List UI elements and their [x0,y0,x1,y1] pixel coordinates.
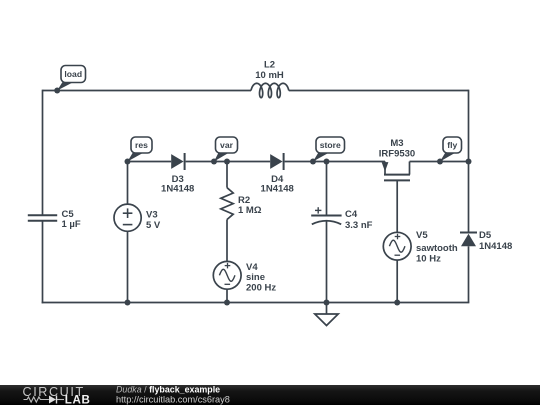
svg-text:10 Hz: 10 Hz [416,253,441,264]
wire V4 to bottom [226,289,228,302]
wire top-right run [289,90,469,92]
svg-text:LAB: LAB [65,393,91,405]
svg-text:1N4148: 1N4148 [161,183,194,194]
svg-text:load: load [64,69,82,79]
voltage source V5 sawtooth [383,232,411,260]
node fly junction [437,159,443,165]
svg-text:3.3 nF: 3.3 nF [345,220,373,231]
node load junction [54,88,60,94]
svg-text:sine: sine [246,272,265,283]
junction ground [324,300,330,306]
node store junction [310,159,316,165]
node label load [57,82,73,91]
wire right mid [468,162,470,233]
svg-text:10 mH: 10 mH [255,70,284,81]
wire C4 to bottom [326,222,328,303]
wire left lower [42,222,44,304]
svg-text:1N4148: 1N4148 [479,241,512,252]
svg-text:M3: M3 [390,138,403,149]
ground [315,303,338,326]
svg-text:Dudka / flyback_example: Dudka / flyback_example [116,385,220,395]
node label store [313,153,329,162]
capacitor C5 [28,214,57,216]
svg-text:D5: D5 [479,230,492,241]
capacitor C4 polarized [311,207,341,224]
svg-text:res: res [135,140,148,150]
junction V5 bottom [394,300,400,306]
circuitlab logo diode symbol [49,396,56,404]
wire M3 gate lead [396,180,398,232]
node label res [128,153,144,162]
junction V3 bottom [125,300,131,306]
diode D4 [270,154,282,169]
svg-text:http://circuitlab.com/cs6ray8: http://circuitlab.com/cs6ray8 [116,395,230,405]
svg-text:L2: L2 [264,59,275,70]
resistor R2 [221,188,233,220]
wire store node to C4 [326,162,328,216]
wire V5 to bottom [396,260,398,302]
svg-text:1N4148: 1N4148 [261,183,294,194]
svg-text:C4: C4 [345,209,358,220]
wire bottom run [42,302,470,304]
svg-text:5 V: 5 V [146,220,161,231]
circuitlab logo resistor symbol [24,397,49,402]
inductor L2 [251,83,289,97]
wire top-left run [43,90,252,92]
wire R2 to V4 [226,220,228,262]
wire res to D3 [128,161,172,163]
node label var [214,153,229,162]
wire V3 to bottom [127,231,129,302]
wire left side [42,90,44,215]
voltage source V4 sine [213,261,241,289]
junction right corner [466,159,472,165]
node label fly [440,153,456,162]
wire right upper [468,90,470,162]
diode D5 [460,232,477,234]
junction V4 bottom [224,300,230,306]
svg-text:200 Hz: 200 Hz [246,283,276,294]
wire res node to V3 [127,162,129,205]
svg-text:1 µF: 1 µF [62,219,81,230]
svg-text:fly: fly [447,140,457,150]
node res junction [125,159,131,165]
wire D4 to M3 [285,161,385,163]
voltage source V3 [114,204,141,231]
svg-text:C5: C5 [62,209,75,220]
svg-text:sawtooth: sawtooth [416,243,458,254]
svg-text:IRF9530: IRF9530 [379,149,415,160]
wire var node to R2 [226,162,228,188]
svg-text:R2: R2 [238,195,250,206]
node var junction [211,159,217,165]
wire M3 drain to fly [410,161,469,163]
diode D3 [171,154,183,169]
wire right lower [468,246,470,302]
svg-text:V3: V3 [146,210,158,221]
svg-text:store: store [320,140,341,150]
transistor M3 IRF9530 p-channel mosfet [382,162,410,181]
junction C4 branch [324,159,330,165]
svg-text:var: var [220,140,234,150]
svg-text:1 MΩ: 1 MΩ [238,205,262,216]
junction R2 branch [224,159,230,165]
svg-text:V5: V5 [416,230,428,241]
wire D3 to D4 [186,161,271,163]
